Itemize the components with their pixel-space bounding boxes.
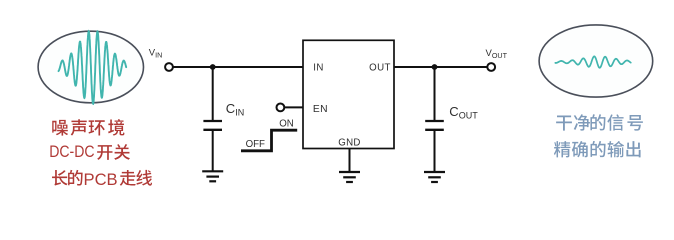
svg-text:GND: GND — [338, 138, 360, 149]
svg-text:PCB: PCB — [84, 170, 118, 189]
svg-text:ON: ON — [279, 118, 294, 129]
wire: GND pin to ground — [349, 149, 351, 173]
label: 噪声环境 — [52, 119, 124, 136]
junction: input node — [210, 64, 216, 70]
output terminal VOUT — [487, 63, 495, 71]
label: 精确的输出 — [554, 141, 641, 157]
ground (IC) — [339, 172, 360, 182]
wire: output node down to COUT — [434, 67, 436, 121]
svg-text:IN: IN — [313, 62, 324, 73]
wire: input node down to CIN — [212, 67, 214, 121]
ground (output) — [424, 172, 445, 182]
svg-text:DC-DC: DC-DC — [49, 142, 94, 161]
ground (input) — [202, 171, 223, 181]
right bubble: clean signal ellipse — [539, 25, 653, 97]
wire: EN terminal to EN pin — [284, 106, 303, 108]
noisy waveform — [59, 31, 127, 104]
clean waveform — [555, 56, 631, 67]
svg-text:OUT: OUT — [369, 62, 391, 73]
regulator IC U1 — [303, 40, 394, 148]
label: 长的PCB走线 — [52, 170, 152, 189]
left bubble: noisy signal ellipse — [38, 31, 143, 103]
wire: CIN to ground — [212, 130, 214, 172]
ON/OFF logic step waveform — [241, 130, 297, 151]
wire: VIN to IN pin — [173, 66, 303, 68]
svg-text:OFF: OFF — [246, 139, 265, 150]
input terminal VIN — [165, 63, 173, 71]
label: 干净的信号 — [556, 114, 643, 130]
wire: OUT pin to VOUT — [394, 66, 487, 68]
enable terminal — [277, 104, 285, 112]
capacitor CIN — [203, 121, 222, 130]
junction: output node — [432, 64, 438, 70]
svg-text:EN: EN — [313, 104, 328, 115]
label: DC-DC开关 — [49, 142, 130, 161]
capacitor COUT — [425, 121, 444, 130]
wire: COUT to ground — [434, 130, 436, 172]
